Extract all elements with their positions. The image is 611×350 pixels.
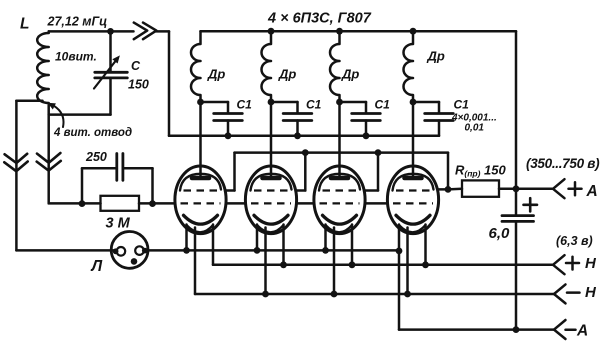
node choke3 top <box>336 28 343 35</box>
node t4 cathode <box>404 291 411 298</box>
capacitor 6,0 plates <box>502 214 534 217</box>
wire cap 6,0 down <box>515 221 518 329</box>
terminal arrow +А <box>553 179 565 198</box>
wire C1-1 to bus <box>227 121 230 136</box>
svg-text:А: А <box>586 183 598 200</box>
wire choke3 to C1 <box>340 101 367 104</box>
svg-text:С1: С1 <box>306 98 322 112</box>
svg-text:С: С <box>131 59 141 73</box>
node choke2 top <box>268 28 275 35</box>
heater left lead tube 3 <box>324 225 327 251</box>
feeder arrows left <box>5 154 28 163</box>
choke Dr2 <box>262 31 272 102</box>
wire down to C1 bus <box>168 31 171 135</box>
node t3 left pin <box>322 247 329 254</box>
wire cathode bus (−Н) <box>195 293 554 296</box>
tube VL3 (6П3С) <box>314 166 365 234</box>
svg-text:(350...750 в): (350...750 в) <box>526 156 600 171</box>
wire coil tap to left feeder <box>16 100 42 103</box>
capacitor C1-4 plates <box>425 112 454 115</box>
node t4 right pin <box>422 261 429 268</box>
wire heater bus 2 (+Н) <box>213 264 553 267</box>
node C1-2 bus <box>294 132 301 139</box>
capacitor C 150 plates <box>95 71 128 74</box>
node screen2 <box>302 149 309 156</box>
wire heater bus 1 right <box>147 249 400 252</box>
heater right lead tube 3 <box>351 225 354 265</box>
node t3 right pin <box>349 261 356 268</box>
tube VL1 (6П3С) <box>175 166 226 234</box>
terminal arrow +Н <box>553 255 565 274</box>
wire tube4 screen to resistor <box>448 188 462 191</box>
svg-text:Н: Н <box>585 255 597 272</box>
svg-text:4 вит. отвод: 4 вит. отвод <box>53 127 132 139</box>
svg-text:R(пр) 150: R(пр) 150 <box>455 163 507 179</box>
svg-text:Н: Н <box>585 284 597 301</box>
wire C1-3 to bus <box>365 121 368 136</box>
svg-text:Др: Др <box>427 49 445 64</box>
resistor Rпр 150 <box>462 180 499 196</box>
terminal arrow −А <box>554 320 566 339</box>
lamp Л circle <box>111 232 148 269</box>
wire tank top to connector <box>111 30 134 33</box>
node grid right <box>149 200 156 207</box>
svg-text:Л: Л <box>91 258 103 275</box>
connector chevrons >> on output wire <box>134 23 147 40</box>
label −Н <box>567 291 580 294</box>
wire screen bus <box>235 151 449 154</box>
label +А <box>569 187 582 190</box>
wire −А bus <box>399 328 554 331</box>
svg-text:250: 250 <box>85 150 107 164</box>
wire left feeder down <box>15 101 18 251</box>
node t4 left pin <box>396 248 403 255</box>
node grid left <box>79 200 86 207</box>
cathode lead tube 2 <box>264 228 267 295</box>
wire resistor to +А node <box>499 188 516 191</box>
capacitor C1-3 plates <box>352 112 381 115</box>
tube VL2 (6П3С) <box>245 166 296 234</box>
node −А right bus <box>513 326 520 333</box>
wire grid from feeder <box>49 202 101 205</box>
svg-text:150: 150 <box>128 78 149 92</box>
anode lead tube 4 <box>412 102 415 176</box>
node t1 left pin <box>183 247 190 254</box>
wire top anode bus <box>201 30 517 33</box>
choke Dr4 <box>404 31 413 102</box>
svg-text:Др: Др <box>278 67 296 82</box>
lamp contact left <box>117 247 126 256</box>
capacitor 6,0 plus sign <box>524 204 538 207</box>
label +Н <box>566 262 579 265</box>
capacitor C 150 bottom lead <box>109 78 112 115</box>
lamp bottom pin <box>131 258 138 265</box>
node t2 cathode <box>262 291 269 298</box>
capacitor C 150 arrow <box>94 59 118 89</box>
wire grid bus t3-t4 <box>365 202 387 205</box>
node t3 cathode <box>331 291 338 298</box>
wire cap 250 to right <box>123 167 153 170</box>
svg-text:Др: Др <box>341 67 359 82</box>
wire to cap 250 <box>82 167 117 170</box>
node choke1 bottom <box>197 99 204 106</box>
node screen4 resistor junction <box>445 186 452 193</box>
terminal arrow −Н <box>554 284 566 303</box>
wire screen stub tube 4 <box>439 188 448 191</box>
anode lead tube 1 <box>199 102 202 176</box>
svg-text:Др: Др <box>207 67 225 82</box>
svg-text:L: L <box>20 16 29 33</box>
anode lead tube 2 <box>270 102 273 176</box>
tap arrow <box>52 105 64 128</box>
node tank top junction <box>107 28 114 35</box>
wire C1-4 to bus <box>438 121 441 136</box>
wire C1 bottom bus <box>169 135 439 138</box>
heater right lead tube 4 <box>424 225 427 265</box>
inductor L coil (10 turns, tank) <box>37 31 49 114</box>
wire heater bus 1 left <box>16 249 113 252</box>
node choke4 bottom <box>410 99 417 106</box>
svg-text:С1: С1 <box>237 98 253 112</box>
wire grid bus t1-t2 <box>226 202 245 205</box>
choke Dr1 <box>191 31 201 102</box>
capacitor C1-1 plates <box>214 112 243 115</box>
node choke2 bottom <box>268 99 275 106</box>
node t2 right pin <box>280 261 287 268</box>
node C1-3 bus <box>363 132 370 139</box>
svg-text:А: А <box>576 322 588 339</box>
wire up to coupling cap <box>81 168 84 203</box>
feeder arrows right <box>37 153 60 163</box>
wire screen stub tube 3 <box>365 189 378 192</box>
node +А <box>513 185 520 192</box>
choke Dr3 <box>330 31 340 102</box>
wire screen stub tube 2 <box>297 189 306 192</box>
wire choke1 to C1 <box>201 101 229 104</box>
node choke4 top <box>410 28 417 35</box>
tube VL4 (6П3С) <box>387 166 438 234</box>
wire connector to right corner <box>156 30 170 33</box>
wire choke4 to C1 <box>413 101 439 104</box>
svg-text:3 М: 3 М <box>106 216 131 232</box>
heater left lead tube 1 <box>185 225 188 251</box>
heater left lead tube 4 <box>398 225 401 330</box>
wire choke2 to C1 <box>271 101 298 104</box>
svg-text:(6,3 в): (6,3 в) <box>556 234 593 248</box>
cathode lead tube 1 <box>194 228 197 295</box>
svg-text:6,0: 6,0 <box>489 225 511 242</box>
node choke3 bottom <box>336 99 343 106</box>
svg-text:С1: С1 <box>375 98 391 112</box>
capacitor C1-2 plates <box>283 112 312 115</box>
wire screen stub tube 1 <box>226 189 234 192</box>
capacitor C 150 (variable) top lead <box>109 31 112 71</box>
resistor 3М <box>101 196 140 211</box>
wire tank top <box>49 30 111 33</box>
svg-text:0,01: 0,01 <box>465 123 485 134</box>
heater right lead tube 1 <box>212 225 215 265</box>
heater right lead tube 2 <box>282 225 285 265</box>
heater left lead tube 2 <box>256 225 259 251</box>
node screen3 <box>375 149 382 156</box>
cathode lead tube 3 <box>333 228 336 295</box>
capacitor 250 plates <box>115 154 118 181</box>
svg-text:С1: С1 <box>454 98 470 112</box>
wire C1-2 to bus <box>296 121 299 136</box>
svg-text:27,12 мГц: 27,12 мГц <box>47 15 108 29</box>
lamp contact right <box>135 246 144 255</box>
cathode lead tube 4 <box>406 228 409 295</box>
wire top bus down right side <box>515 31 518 215</box>
label −А <box>566 329 576 332</box>
anode lead tube 3 <box>338 102 341 176</box>
node t2 left pin <box>254 247 261 254</box>
svg-text:4 × 6П3С, Г807: 4 × 6П3С, Г807 <box>267 11 372 27</box>
wire right feeder down <box>47 115 50 204</box>
wire grid to tube 1 <box>139 202 175 205</box>
wire grid bus t2-t3 <box>297 202 314 205</box>
node C1-1 bus <box>225 132 232 139</box>
wire to +А terminal <box>516 188 553 191</box>
wire coil bottom to capacitor <box>49 113 111 116</box>
wire down to grid <box>151 168 154 203</box>
svg-text:10вит.: 10вит. <box>55 50 97 64</box>
